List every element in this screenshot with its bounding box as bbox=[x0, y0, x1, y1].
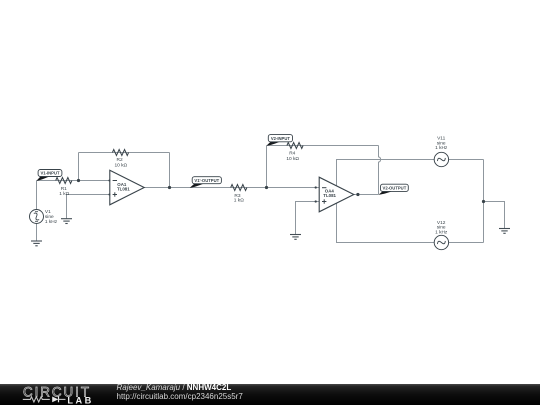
wire feedback horizontal through R2 bbox=[79, 152, 170, 154]
resistor R3 bbox=[231, 185, 247, 204]
svg-text:1 kΩ: 1 kΩ bbox=[59, 191, 69, 197]
net flag V1'-OUTPUT bbox=[190, 177, 222, 188]
footer credit text bbox=[117, 383, 232, 392]
resistor R1 bbox=[56, 178, 72, 198]
op-amp OA1 TL081 bbox=[110, 170, 144, 205]
footer url text bbox=[117, 392, 244, 401]
svg-text:10 kΩ: 10 kΩ bbox=[286, 156, 299, 162]
ground below V1 bbox=[31, 241, 42, 246]
ground at supply midpoint bbox=[499, 229, 510, 234]
node junction at R1 / R2 feedback bbox=[77, 179, 80, 182]
svg-text:1 kHz: 1 kHz bbox=[45, 219, 58, 225]
wire V1-INPUT node to OA1 inverting input (through R1) bbox=[37, 180, 110, 182]
wire OA1 non-inverting input to ground bbox=[67, 195, 110, 219]
op-amp OA4 TL081 bbox=[319, 177, 354, 212]
wire V1 source to input node bbox=[36, 181, 38, 210]
svg-text:1 kΩ: 1 kΩ bbox=[234, 198, 244, 204]
svg-text:V1-INPUT: V1-INPUT bbox=[40, 171, 60, 176]
svg-text:1 kHz: 1 kHz bbox=[435, 229, 448, 235]
node junction at supply midpoint bbox=[482, 200, 485, 203]
svg-text:R2: R2 bbox=[117, 157, 123, 163]
svg-text:R4: R4 bbox=[289, 150, 295, 156]
footer bar bbox=[0, 384, 540, 405]
CircuitLab logo bbox=[23, 385, 94, 405]
ground at OA1 non-inverting input bbox=[61, 219, 72, 224]
wire feedback node up from R1 junction bbox=[78, 153, 80, 181]
node junction at R3 / R4 / OA4 input bbox=[265, 186, 268, 189]
voltage source V11 sine 1 kHz bbox=[434, 136, 448, 167]
svg-text:Rajeev_Kamaraju / NNHW4C2L: Rajeev_Kamaraju / NNHW4C2L bbox=[117, 383, 232, 392]
resistor R4 bbox=[286, 143, 303, 163]
node junction at OA4 output bbox=[356, 193, 359, 196]
svg-text:V2-OUTPUT: V2-OUTPUT bbox=[383, 185, 407, 190]
net flag V1-INPUT bbox=[37, 170, 62, 181]
pin dot OA4 non-inverting input bbox=[315, 200, 317, 202]
pin dot OA1 inverting input bbox=[108, 180, 110, 182]
wire R4 feedback down to OA4 output with hop over supply wire bbox=[379, 146, 381, 195]
pin dot OA4 inverting input bbox=[315, 186, 317, 188]
node junction at OA1 output bbox=[168, 186, 171, 189]
wire OA4 non-inverting input to ground bbox=[296, 202, 320, 235]
wire V1 source to ground bbox=[36, 223, 38, 241]
wire OA4 output bbox=[354, 194, 379, 196]
svg-text:10 kΩ: 10 kΩ bbox=[114, 163, 127, 169]
ground at OA4 non-inverting input bbox=[290, 235, 301, 240]
svg-text:http://circuitlab.com/cp2346n2: http://circuitlab.com/cp2346n25s5r7 bbox=[117, 392, 244, 401]
wire OA4 V+ pin to V11 supply rail bbox=[337, 160, 484, 186]
wire OA4 V- pin to V12 supply rail bbox=[337, 203, 484, 242]
resistor R2 bbox=[112, 150, 128, 169]
voltage source V12 sine 1 kHz bbox=[434, 220, 448, 250]
svg-text:TL081: TL081 bbox=[323, 193, 336, 198]
wire right vertical joining V11 and V12 bbox=[483, 160, 485, 243]
net flag V2-OUTPUT bbox=[379, 184, 409, 194]
pin dot OA1 non-inverting input bbox=[108, 194, 110, 196]
svg-text:1 kHz: 1 kHz bbox=[435, 145, 448, 151]
svg-text:LAB: LAB bbox=[67, 396, 93, 405]
svg-text:V2-INPUT: V2-INPUT bbox=[271, 136, 291, 141]
wire OA1 output to OA4 inverting input (through R3) bbox=[144, 187, 319, 189]
svg-text:V1'-OUTPUT: V1'-OUTPUT bbox=[194, 178, 219, 183]
svg-text:TL081: TL081 bbox=[117, 186, 130, 191]
voltage source V1 sine 1 kHz bbox=[30, 209, 58, 225]
wire supply midpoint to ground bbox=[484, 202, 505, 229]
wire feedback down to OA1 output bbox=[169, 153, 171, 188]
wire feedback horizontal through R4 bbox=[267, 145, 379, 147]
net flag V2-INPUT bbox=[267, 135, 293, 146]
wire V2-INPUT node up from R3 junction bbox=[266, 146, 268, 188]
